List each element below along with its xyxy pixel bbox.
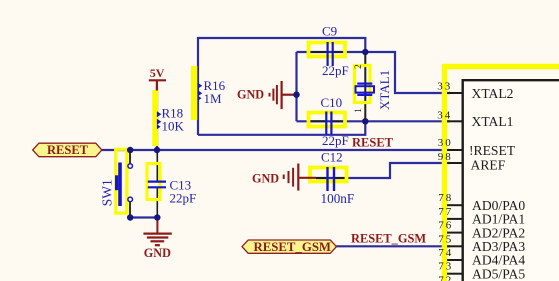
svg-text:XTAL1: XTAL1 xyxy=(377,70,392,110)
IC pin 77 AD1/PA1 xyxy=(438,206,525,227)
junction dots on RESET net xyxy=(127,147,134,154)
wire SW1 bottom to C13 bottom (GND net) xyxy=(129,216,159,218)
svg-text:100nF: 100nF xyxy=(321,191,355,206)
svg-text:22pF: 22pF xyxy=(322,63,349,78)
power 5V xyxy=(149,66,166,91)
pin SW1 top xyxy=(129,150,131,164)
junction dot crystal top node xyxy=(362,49,369,56)
svg-text:AD5/PA5: AD5/PA5 xyxy=(472,266,525,281)
wire XTAL2 link xyxy=(365,52,450,93)
power GND (earth style, near C12) xyxy=(252,164,316,191)
junction dot crystal bottom node xyxy=(362,118,369,125)
svg-text:2: 2 xyxy=(353,64,363,69)
svg-text:33: 33 xyxy=(437,81,452,93)
pin SW1 bottom xyxy=(129,202,131,218)
svg-text:34: 34 xyxy=(437,110,452,122)
wire C10 row to pin XTAL1 xyxy=(297,120,451,122)
wire RESET_GSM to pin 75 xyxy=(335,245,450,247)
IC pin 30 !RESET xyxy=(438,137,516,158)
resistor R16 xyxy=(191,66,226,120)
svg-text:98: 98 xyxy=(438,151,453,163)
svg-text:AREF: AREF xyxy=(471,158,506,173)
wire RESET net horizontal xyxy=(101,149,450,151)
svg-text:GND: GND xyxy=(237,88,264,102)
svg-text:RESET_GSM: RESET_GSM xyxy=(254,240,332,254)
svg-text:SW1: SW1 xyxy=(100,179,115,206)
net flag RESET_GSM xyxy=(242,240,336,254)
svg-text:GND: GND xyxy=(252,172,279,186)
svg-text:77: 77 xyxy=(438,206,453,218)
svg-text:30: 30 xyxy=(438,137,453,149)
wire crystal lead vertical xyxy=(364,52,366,121)
svg-text:73: 73 xyxy=(438,261,453,273)
svg-text:78: 78 xyxy=(438,192,453,204)
capacitor C12 xyxy=(310,150,354,207)
svg-text:1: 1 xyxy=(353,108,363,113)
svg-text:RESET: RESET xyxy=(47,143,89,157)
svg-text:5V: 5V xyxy=(150,66,165,80)
IC pin 74 AD4/PA4 xyxy=(438,247,525,268)
IC pin 75 AD3/PA3 xyxy=(438,233,525,254)
svg-text:RESET: RESET xyxy=(352,135,394,149)
svg-text:22pF: 22pF xyxy=(322,133,349,148)
svg-text:74: 74 xyxy=(438,247,453,259)
IC pin 73 AD5/PA5 xyxy=(438,261,525,281)
capacitor C13 xyxy=(147,164,196,206)
svg-text:!RESET: !RESET xyxy=(469,143,516,158)
svg-text:C9: C9 xyxy=(322,24,337,39)
IC pin 76 AD2/PA2 xyxy=(438,220,525,241)
wire R16 bottom jog to crystal node xyxy=(198,121,365,135)
svg-text:1M: 1M xyxy=(204,91,223,106)
svg-text:RESET_GSM: RESET_GSM xyxy=(351,232,426,246)
wire C9 row xyxy=(297,51,366,53)
svg-text:22pF: 22pF xyxy=(170,191,197,206)
wide yellow bus line xyxy=(445,67,559,281)
capacitor C10 xyxy=(307,95,349,148)
power GND (earth style, near C9/C10) xyxy=(237,81,297,109)
junction dots on GND net xyxy=(127,214,134,221)
svg-text:C12: C12 xyxy=(321,150,343,165)
IC pin 78 AD0/PA0 xyxy=(438,192,525,213)
resistor R18 xyxy=(152,90,184,146)
net flag RESET xyxy=(33,143,102,157)
svg-text:10K: 10K xyxy=(162,119,185,134)
switch SW1 xyxy=(100,149,133,213)
svg-text:XTAL1: XTAL1 xyxy=(472,114,514,129)
svg-text:72: 72 xyxy=(438,274,453,281)
IC U? (MCU) body xyxy=(463,80,559,281)
IC pin 98 AREF xyxy=(438,151,506,172)
wire left vertical C9-C10 xyxy=(295,52,297,121)
wire C12 row to AREF pin xyxy=(316,163,450,178)
IC pin 72 (clipped at bottom edge) xyxy=(438,274,453,281)
wire 5V stem to RESET net (under R18) xyxy=(156,86,158,150)
IC pin 34 XTAL1 xyxy=(437,110,513,129)
svg-text:C10: C10 xyxy=(321,95,343,110)
IC pin 33 XTAL2 xyxy=(437,81,513,101)
crystal XTAL1 xyxy=(353,64,392,112)
wire R16 top loop xyxy=(198,38,365,135)
capacitor C9 xyxy=(307,24,349,79)
junction (GND tap on left vertical) xyxy=(293,91,300,98)
svg-text:76: 76 xyxy=(438,220,453,232)
pin C13 leads xyxy=(156,150,158,181)
svg-text:GND: GND xyxy=(144,246,171,260)
svg-text:75: 75 xyxy=(438,233,453,245)
ground GND (below C13, bar style) xyxy=(143,218,171,260)
svg-text:XTAL2: XTAL2 xyxy=(472,86,514,101)
